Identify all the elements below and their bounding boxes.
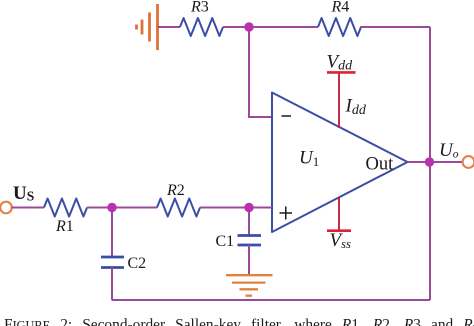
Vdd supply lead (338, 73, 340, 128)
node A (R3/R4 junction) (244, 22, 253, 31)
resistor R4 (318, 18, 361, 36)
wire right vertical (429, 27, 431, 300)
Vss supply lead (338, 197, 340, 231)
input terminal (0, 202, 12, 214)
wire C1 to ground (248, 245, 250, 275)
Vdd supply bar (327, 71, 356, 74)
wire ground to R3 (158, 26, 181, 28)
svg-text:R1: R1 (55, 218, 74, 235)
plus sign (280, 207, 293, 220)
output terminal (463, 156, 474, 168)
wire terminal to R1 (12, 207, 45, 209)
svg-text:Out: Out (366, 155, 395, 175)
node C (R2/C1/+ junction) (244, 203, 253, 212)
wire R4 to right edge (360, 26, 430, 28)
wire R2 to + input (200, 207, 272, 209)
svg-text:R2: R2 (166, 182, 185, 199)
wire op-amp output to terminal (408, 161, 463, 163)
minus sign (282, 115, 292, 117)
wire node A down to inverting input (249, 27, 272, 117)
svg-text:C1: C1 (216, 233, 235, 250)
svg-text:R3: R3 (190, 0, 209, 16)
Vss supply bar (327, 229, 351, 232)
node B (R1/R2/C2 junction) (107, 203, 116, 212)
svg-text:C2: C2 (128, 255, 147, 272)
svg-text:FIGURE 2: Second-order Sallen-: FIGURE 2: Second-order Sallen-key filter… (4, 317, 474, 326)
wire R1 to R2 (87, 207, 157, 209)
resistor R3 (180, 18, 223, 36)
wire R3 to R4 (223, 26, 318, 28)
capacitor C1 (238, 236, 262, 246)
node output junction (425, 157, 434, 166)
wire bottom feedback (112, 299, 430, 301)
resistor R1 (44, 199, 87, 217)
wire node C down to C1 (248, 208, 250, 236)
ground (bottom, below C1) (226, 275, 273, 296)
op-amp U1 (272, 93, 408, 233)
capacitor C2 (101, 257, 124, 268)
wire C2 to bottom (111, 268, 113, 301)
wire node B down to C2 (111, 208, 113, 258)
ground (top-left, rotated left-pointing) (137, 4, 158, 50)
resistor R2 (157, 199, 200, 217)
svg-text:R4: R4 (331, 0, 350, 16)
